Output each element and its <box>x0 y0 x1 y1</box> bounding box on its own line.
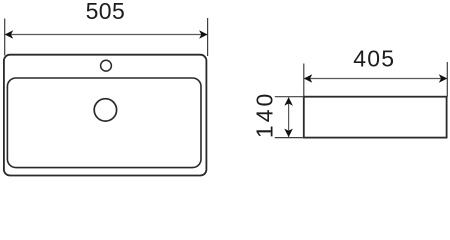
arrowhead 505 right <box>199 30 208 39</box>
drain hole circle <box>94 99 116 121</box>
arrowhead 140 up <box>284 97 293 106</box>
extension line left of 505 <box>4 19 6 56</box>
svg-text:505: 505 <box>86 0 126 24</box>
arrowhead 140 down <box>284 129 293 138</box>
extension line right of 405 <box>446 62 448 97</box>
faucet hole circle <box>101 60 112 71</box>
extension line top-left of 140 <box>275 96 304 98</box>
side view rectangle <box>304 97 447 138</box>
extension line bottom-left of 140 <box>275 137 304 139</box>
dimension line 140 <box>288 98 290 137</box>
extension line left of 405 <box>303 64 305 97</box>
svg-text:405: 405 <box>353 46 395 72</box>
arrowhead 405 left <box>304 74 313 83</box>
basin inner rim (top view rounded rect) <box>7 78 201 168</box>
dimension line 505 <box>5 34 207 36</box>
arrowhead 405 right <box>439 74 448 83</box>
basin outer rim (top view rounded rect) <box>4 55 207 176</box>
svg-text:140: 140 <box>252 91 278 138</box>
dimension line 405 <box>305 78 447 80</box>
arrowhead 505 left <box>5 30 14 39</box>
extension line right of 505 <box>207 18 209 56</box>
